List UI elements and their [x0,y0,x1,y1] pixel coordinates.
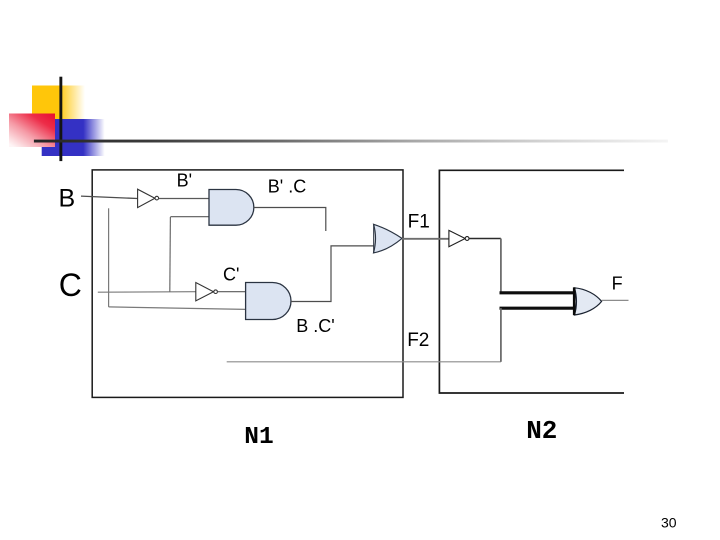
wire vertical lower N2 [500,308,502,362]
svg-text:B': B' [177,171,192,191]
wire vertical upper N2 [500,239,502,293]
wire AND1 output [254,208,326,232]
wire B branch vertical [108,208,110,307]
wire F output [602,299,629,301]
svg-text:N2: N2 [526,416,557,446]
wire B input to inverter [81,196,138,198]
box N1 [92,170,403,398]
decorative horizontal rule [34,140,668,143]
inverter U1 (B') [138,189,159,207]
svg-text:B' .C: B' .C [268,177,306,197]
wire F1 from OR1 to N2 inverter [402,238,449,240]
svg-text:B: B [59,184,76,212]
inverter U2 (C') [196,283,218,301]
OR gate 2 (F) [574,287,601,315]
decorative red square [9,114,55,148]
svg-text:F1: F1 [408,212,430,233]
svg-text:C': C' [223,265,239,285]
svg-text:B .C': B .C' [296,316,334,336]
decorative blue square [42,119,105,156]
wire C branch vertical to AND1 [169,217,172,292]
decorative vertical line [59,77,62,161]
wire inverter U2 output to AND2 [218,291,246,293]
wire C branch to AND1 lower input [170,216,209,218]
AND gate 1 (B'.C) [209,190,254,226]
wire inverter U1 output to AND1 [159,198,209,200]
svg-text:F: F [612,274,623,294]
inverter U3 in N2 [449,230,469,246]
AND gate 2 (B.C') [246,283,291,320]
wire thick to OR2 upper input [500,291,576,294]
svg-text:C: C [59,267,82,303]
wire U3 output [469,238,501,240]
svg-text:F2: F2 [407,330,429,351]
wire B branch to AND2 lower input [109,307,246,310]
wire F2 horizontal [227,361,501,363]
OR gate 1 (F1) [374,224,403,253]
wire AND2 output to OR1 [291,246,374,302]
svg-text:30: 30 [661,515,677,531]
svg-text:N1: N1 [244,424,273,451]
wire thick to OR2 lower input [500,307,576,310]
box N2 (open on right side) [439,170,624,393]
decorative yellow square [32,86,85,120]
wire C input horizontal [98,291,196,294]
